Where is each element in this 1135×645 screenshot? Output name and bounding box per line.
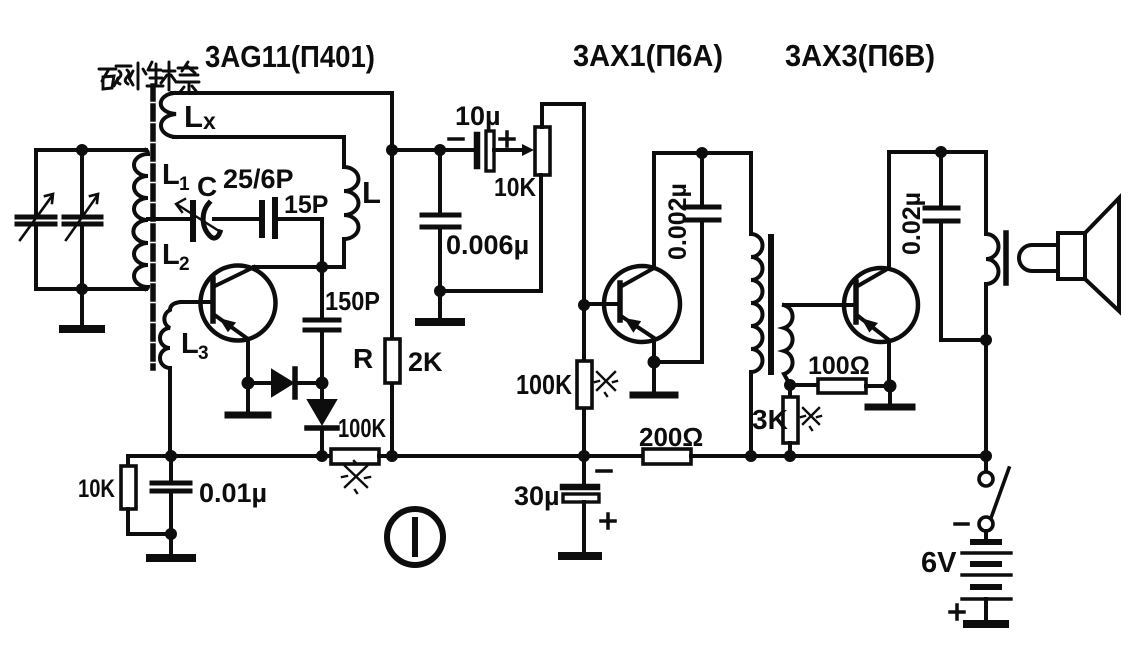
diode D2 [320,383,324,400]
potentiometer wiper arrow [522,144,534,156]
svg-text:3AX1(П6A): 3AX1(П6A) [573,38,723,73]
node tank bottom [76,283,88,295]
label minus battery [955,522,968,526]
wire C to 15P [214,217,258,221]
battery B1 6V [984,531,988,541]
ground tank [80,289,84,326]
svg-text:L: L [362,175,381,210]
wire Lx bottom line [174,135,344,139]
ground 10K-0.01µ [169,534,173,554]
transistor Q1 circle [201,266,276,341]
node 0.006µ bottom [434,285,446,297]
svg-text:200Ω: 200Ω [639,422,703,452]
node bus-R line [386,450,398,462]
node Q3 emitter [884,380,897,393]
transistor Q1 emitter arrow [219,318,236,332]
mark ※ right of 3K [801,408,821,430]
svg-text:6V: 6V [921,547,957,579]
node bus-3K [784,450,796,462]
transistor Q3 collector [856,152,889,287]
variable capacitor C arrow [176,199,219,231]
node secondary bottom [784,379,796,391]
svg-text:3K: 3K [752,404,788,435]
battery bottom terminal [984,599,988,620]
wire T2 top line [655,151,751,155]
transistor Q3 base bar [853,282,859,322]
node D1-D2 junction [316,377,329,390]
mark ※ below 100K [342,461,370,493]
svg-text:2: 2 [179,254,190,275]
variable capacitor CB arrow [66,194,98,240]
wire 0.006µ to pot bottom [440,175,541,291]
svg-text:3AX3(П6B): 3AX3(П6B) [785,38,935,73]
svg-text:25/6P: 25/6P [223,164,294,194]
node Q1 emitter [242,377,255,390]
capacitor 150P [320,267,324,317]
capacitor 30µ electrolytic [582,456,586,484]
svg-text:3AG11(П401): 3AG11(П401) [205,39,375,74]
switch lever [991,468,1009,518]
label plus 30µ [601,514,615,528]
node collector-L junction [316,261,328,273]
wire emitter to diode D1 [248,381,272,385]
svg-text:x: x [203,108,216,134]
label minus 30µ [597,469,611,473]
transistor Q3 circle [844,268,918,342]
node bus-switch [980,450,992,462]
wire L3 top to base [181,300,209,304]
wire Lx top line [172,91,392,95]
wire cap CB vertical [80,150,84,289]
svg-text:L: L [162,159,180,191]
transformer T1 secondary [784,305,793,385]
svg-text:15P: 15P [284,191,328,219]
node 10K-0.01µ [165,528,177,540]
transistor Q2 circle [604,266,680,342]
ground 30µ [562,552,598,560]
svg-text:100Ω: 100Ω [808,352,870,380]
resistor 200Ω (in bus) [643,449,691,464]
transistor Q3 emitter arrow [861,318,878,333]
capacitor 0.02µ [939,152,943,205]
capacitor 15P plates [262,200,275,236]
label plus battery [950,605,964,619]
svg-text:L: L [184,99,203,134]
output transformer primary [986,152,998,456]
coil L3 base winding [160,302,181,368]
wire pot top to T2 base line [542,104,584,305]
node 0.002µ top [696,147,708,159]
svg-text:100K: 100K [338,413,386,443]
svg-text:0.01µ: 0.01µ [199,478,267,508]
svg-text:R: R [353,343,373,374]
transistor Q2 collector [620,153,654,287]
node tank top [76,144,88,156]
node 0.006µ top [434,144,446,156]
wire D1 to node [297,381,322,385]
wire R line (Lx top to bus) [390,93,394,456]
wire D2 to bus [320,431,324,456]
node 0.02µ top [935,146,947,158]
switch contact 2 [979,517,993,531]
variable capacitor CB plates [64,217,101,224]
wire node to 10µ [392,148,475,152]
switch contact 1 [979,472,993,486]
wire 10µ to pot arrow [494,148,524,152]
svg-text:L: L [181,328,199,360]
ground Q2 emitter [652,362,656,391]
svg-text:0.02µ: 0.02µ [898,192,926,255]
transistor Q1 emitter [216,316,248,383]
transistor Q1 collector [215,267,254,286]
wire 0.02µ bottom [941,338,986,342]
capacitor 10µ electrolytic [474,135,481,166]
resistor 10K (base bias) [121,466,136,509]
wire bottom bus left section [128,454,331,458]
wire T3 top line [890,150,986,154]
ground 0.006µ [438,291,442,318]
resistor 100K (T2 bias) [577,361,592,408]
svg-text:150P: 150P [325,286,380,316]
variable capacitor C curved plate [203,203,220,238]
output transformer core [1003,233,1009,283]
svg-text:2K: 2K [408,347,443,377]
label minus 10µ [449,137,463,141]
svg-text:0.006µ: 0.006µ [446,230,529,260]
node bus-D2 [316,450,328,462]
svg-text:L: L [162,239,180,271]
coil Lx left brace [161,93,176,137]
resistor 100Ω [790,383,818,387]
label 磁性棒 (hand-drawn strokes) [99,62,199,92]
transformer T1 core [768,237,774,372]
transistor Q1 base bar [210,279,216,321]
svg-text:1: 1 [179,174,190,195]
speaker magnet [1058,233,1085,279]
svg-text:10µ: 10µ [455,101,501,131]
node bus-L3 [165,450,177,462]
coil L1-L2 tank winding [133,150,148,289]
capacitor 0.006µ [438,150,442,212]
wire L3 bottom to bus [168,368,172,456]
variable capacitor C left plate [190,203,196,239]
ground Q1 emitter [246,383,250,412]
svg-text:10K: 10K [78,475,115,503]
node output transformer tap [980,334,992,346]
mark ※ right of 100K [595,372,617,396]
node bus-30µ [578,450,590,462]
variable capacitor CA plates [17,217,55,224]
wire 10K bottom [128,509,171,534]
svg-text:10K: 10K [494,172,536,202]
figure number ① [387,509,443,565]
label plus 10µ [500,132,514,146]
variable capacitor CA arrow [20,194,53,240]
wire tank bottom rail [36,287,146,291]
coil L oscillator [344,137,359,267]
ground Q3 emitter [888,386,892,403]
wire 15P to L bottom node [278,219,322,267]
wire tank top rail [36,148,146,152]
transistor Q2 emitter [621,316,654,362]
node R line top [386,144,398,156]
wire bus corner to 10K [126,456,130,466]
wire secondary top to Q3 base [784,303,856,307]
resistor 3K [788,385,792,397]
wire tank tap to C [148,217,190,221]
switch contact stub [984,456,988,472]
transistor Q2 base bar [617,283,623,320]
node T2 base [578,299,590,311]
node Q2 emitter [648,356,661,369]
speaker horn [1085,198,1119,311]
svg-text:30µ: 30µ [514,481,560,511]
wire bus right section [691,454,986,458]
resistor 100K (in bus) [331,449,379,464]
svg-text:C: C [197,171,217,202]
speaker voice coil [1019,245,1057,271]
potentiometer 10K [535,127,550,175]
capacitor 0.01µ [169,456,173,480]
transformer T1 primary [751,153,763,456]
node bus-transformer primary [745,450,757,462]
ferrite rod (dashed) [150,86,156,368]
wire 100K line to bus [582,305,586,456]
capacitor 0.002µ [700,153,704,204]
svg-text:3: 3 [198,343,209,364]
wire T2 base [584,302,617,306]
transistor Q3 emitter [858,316,889,386]
wire 0.002µ bottom to emitter node [654,360,702,364]
resistor R 2K [385,339,400,383]
diode D1 [272,370,293,396]
transistor Q2 emitter arrow [624,318,641,333]
wire collector line T1 [254,265,344,269]
svg-text:0.002µ: 0.002µ [664,183,692,260]
svg-text:100K: 100K [516,369,572,400]
wire bus mid section [379,454,643,458]
wire tank left vertical [34,150,38,289]
